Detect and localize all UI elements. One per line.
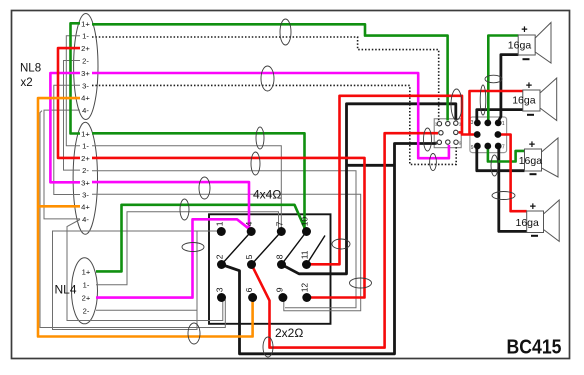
svg-text:+: + [529,139,535,151]
svg-text:2x2Ω: 2x2Ω [275,326,303,340]
svg-text:1-: 1- [83,281,90,290]
svg-text:4x4Ω: 4x4Ω [253,188,281,202]
svg-text:2+: 2+ [81,154,90,163]
svg-text:9: 9 [471,145,474,151]
svg-text:8: 8 [274,254,284,259]
svg-text:11: 11 [300,250,310,259]
svg-text:NL4: NL4 [55,283,77,297]
svg-text:3-: 3- [82,191,89,200]
svg-text:BC415: BC415 [507,337,562,359]
svg-text:3+: 3+ [81,69,90,78]
svg-text:7: 7 [274,221,284,226]
svg-text:2-: 2- [82,57,89,66]
svg-text:4+: 4+ [81,203,90,212]
svg-text:2-: 2- [83,307,90,316]
svg-text:1-: 1- [82,142,89,151]
svg-text:4-: 4- [82,215,89,224]
svg-text:2+: 2+ [82,294,91,303]
svg-text:2-: 2- [82,166,89,175]
svg-text:+: + [521,24,527,36]
svg-text:+: + [526,80,532,92]
svg-text:3-: 3- [82,81,89,90]
svg-text:1+: 1+ [81,130,90,139]
svg-text:16ga: 16ga [512,95,536,107]
svg-text:7: 7 [502,144,505,150]
svg-text:10: 10 [300,217,310,227]
svg-text:5: 5 [244,254,254,259]
svg-text:x2: x2 [21,77,33,89]
svg-text:16ga: 16ga [516,217,540,229]
svg-text:4+: 4+ [81,94,90,103]
svg-text:2: 2 [214,254,224,259]
svg-text:3+: 3+ [81,178,90,187]
svg-text:6: 6 [244,287,254,292]
svg-text:4-: 4- [82,106,89,115]
svg-text:NL8: NL8 [20,62,41,74]
svg-text:1: 1 [214,221,224,226]
svg-text:4: 4 [244,221,254,226]
svg-text:1-: 1- [82,32,89,41]
svg-text:1+: 1+ [81,19,90,28]
svg-text:1+: 1+ [82,267,91,276]
svg-text:2+: 2+ [81,44,90,53]
svg-text:3: 3 [214,287,224,292]
svg-text:9: 9 [274,287,284,292]
svg-text:12: 12 [300,283,310,293]
svg-text:1: 1 [502,121,505,127]
svg-text:3: 3 [471,120,474,126]
svg-text:16ga: 16ga [508,39,532,51]
svg-text:16ga: 16ga [519,155,543,167]
svg-text:+: + [530,201,536,213]
